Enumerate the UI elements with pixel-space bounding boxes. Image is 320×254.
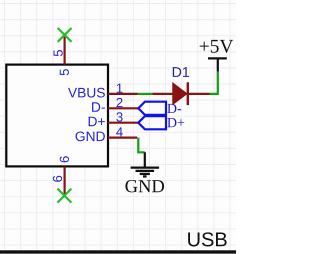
pin 1 stub (108, 93, 138, 95)
label GND (125, 180, 164, 192)
pin number 5 (54, 50, 63, 56)
diode D1 anode stub (153, 93, 173, 95)
sheet name USB (188, 232, 227, 246)
label +5V (200, 40, 234, 53)
no-connect X pin 6 (57, 189, 71, 203)
frame bottom border (0, 250, 236, 253)
pin name GND (76, 131, 105, 141)
pin number 2 (116, 98, 122, 107)
pin number 3 (116, 112, 122, 121)
diode D1 cathode stub (188, 93, 210, 95)
ground symbol bars (131, 168, 160, 177)
label D1 (173, 67, 189, 77)
diode D1 triangle (173, 83, 187, 104)
pin 3 stub (108, 122, 138, 124)
net label D+ (167, 118, 184, 127)
no-connect X pin 5 (58, 28, 72, 42)
pin number 1 (117, 84, 123, 93)
ground symbol stem (144, 152, 146, 166)
pin name 6 (60, 156, 69, 162)
+5V power symbol (208, 58, 227, 71)
net wire VBUS to diode (138, 93, 153, 95)
connector box body (6, 65, 108, 167)
net flag D- (138, 102, 166, 115)
pin name VBUS (68, 88, 105, 98)
net label D- (167, 104, 181, 113)
pin 5 wire (63, 35, 65, 65)
pin number 4 (116, 127, 123, 136)
pin name D- (92, 102, 105, 111)
diode D1 cathode bar (187, 82, 189, 105)
net flag D+ (138, 116, 166, 129)
pin number 6 (53, 176, 62, 182)
net wire diode to +5V (210, 71, 218, 94)
net wire GND staircase (138, 138, 145, 153)
pin 6 wire (63, 166, 65, 195)
pin name D+ (89, 117, 105, 126)
pin name 5 (60, 69, 69, 75)
pin 4 stub (108, 137, 137, 139)
pin 2 stub (108, 107, 138, 109)
